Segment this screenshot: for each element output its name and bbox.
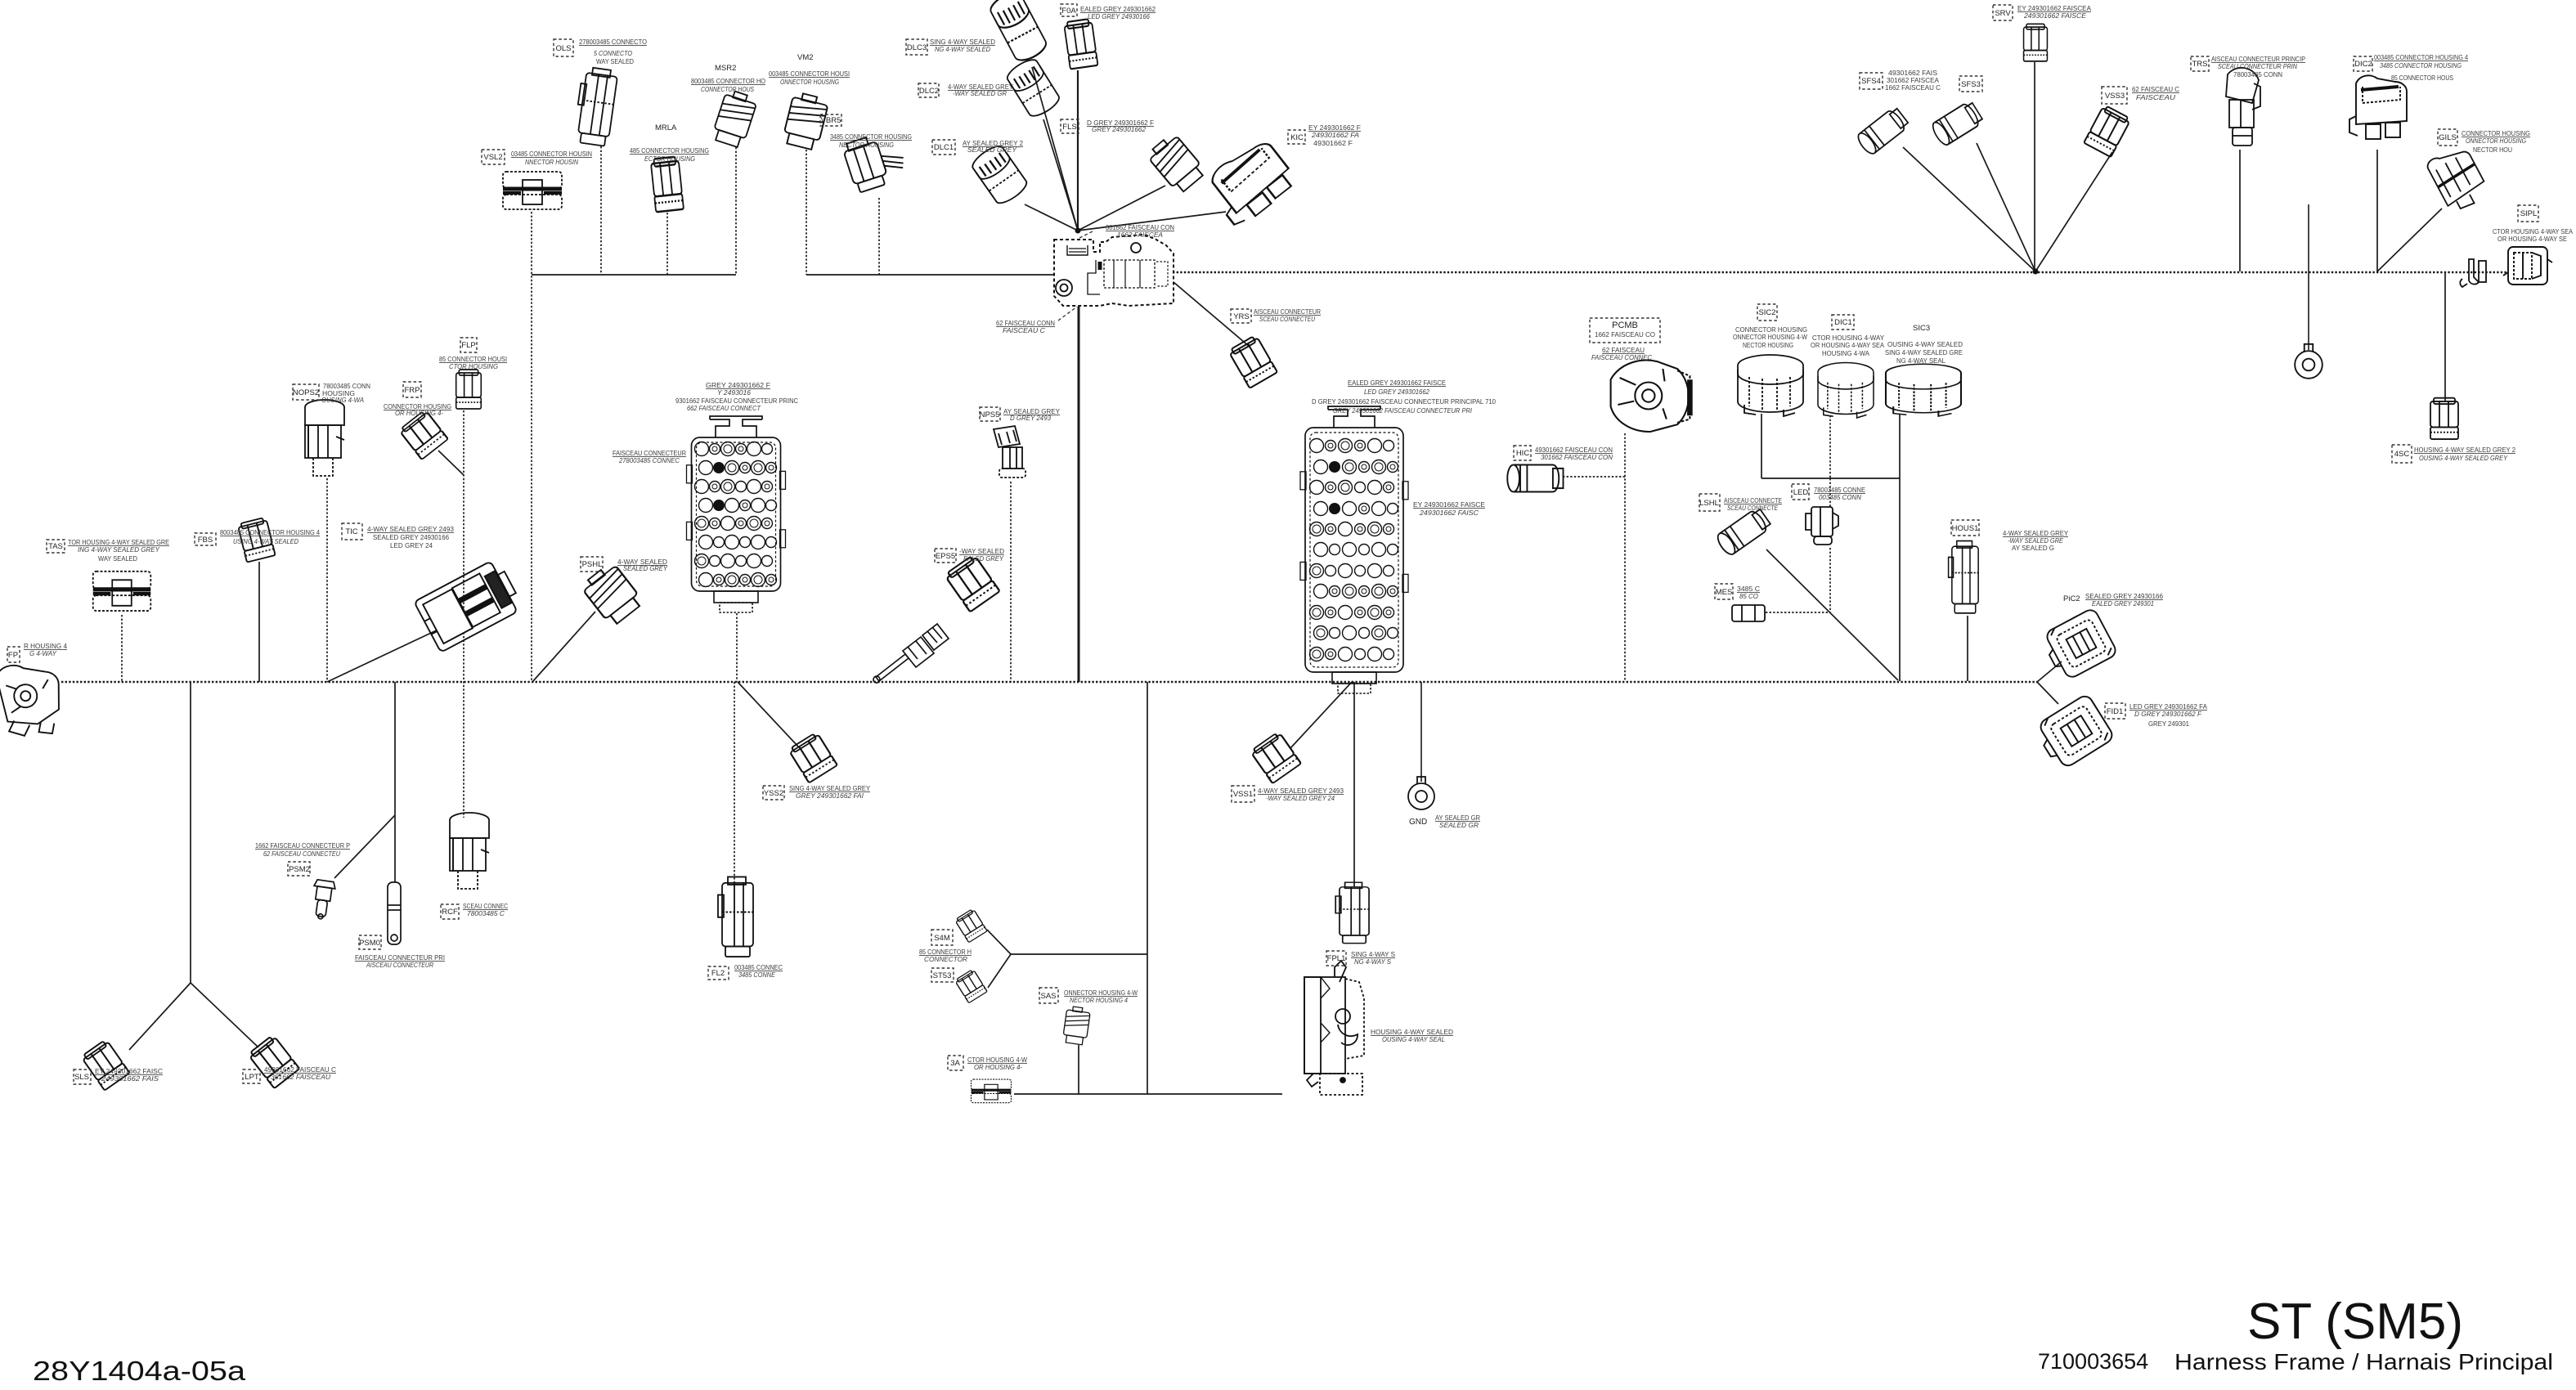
label GILS — [2438, 129, 2457, 146]
svg-text:ONNECTOR HOUSING: ONNECTOR HOUSING — [2466, 137, 2526, 145]
wire NOPS2 drop — [326, 478, 328, 682]
wire FBS drop — [258, 562, 260, 682]
svg-text:SIPL: SIPL — [2520, 209, 2538, 218]
svg-text:PCMB: PCMB — [1612, 321, 1638, 330]
svg-text:SFS4: SFS4 — [1861, 77, 1881, 86]
svg-text:1662 FAISCEAU C: 1662 FAISCEAU C — [1885, 83, 1941, 92]
svg-text:OUSING 4-WAY SEALED GREY: OUSING 4-WAY SEALED GREY — [2419, 454, 2508, 462]
connector LPT — [248, 1034, 299, 1088]
connector F0A — [1064, 19, 1098, 69]
connector VSL2 — [503, 172, 562, 209]
connector YRS — [1228, 334, 1277, 388]
label SIC2 — [1757, 304, 1777, 321]
svg-text:PSM0: PSM0 — [359, 939, 380, 948]
wire YSS2 diagonal — [738, 682, 798, 747]
svg-text:003485 CONN: 003485 CONN — [1819, 493, 1862, 501]
svg-text:662 FAISCEAU CONNECT: 662 FAISCEAU CONNECT — [687, 404, 761, 412]
svg-text:5 CONNECTO: 5 CONNECTO — [594, 49, 632, 57]
svg-text:SIC2: SIC2 — [1758, 308, 1775, 317]
label SAS — [1039, 988, 1058, 1003]
wire fan to DLC3 — [1032, 67, 1078, 231]
connector YSS2 — [788, 732, 837, 782]
svg-text:278003485 CONNECTO: 278003485 CONNECTO — [579, 38, 647, 46]
svg-text:G 4-WAY: G 4-WAY — [29, 649, 57, 657]
svg-text:4-WAY SEALED GREY 2493: 4-WAY SEALED GREY 2493 — [367, 525, 454, 533]
wire TAS drop — [121, 615, 123, 682]
svg-text:GND: GND — [1409, 818, 1427, 827]
label DLC2 — [918, 83, 939, 97]
svg-text:FPL1: FPL1 — [1327, 954, 1346, 963]
wire fan to DLC1 — [1025, 204, 1078, 231]
svg-text:249301662 FAISCE: 249301662 FAISCE — [2023, 11, 2086, 20]
svg-text:RCF: RCF — [442, 908, 458, 917]
svg-text:ECTOR HOUSING: ECTOR HOUSING — [644, 155, 695, 163]
connector FBS — [237, 517, 275, 562]
connector MSR2 — [711, 89, 758, 149]
svg-text:ONNECTOR HOUSING 4-W: ONNECTOR HOUSING 4-W — [1733, 333, 1807, 341]
wire PCMB drop — [1624, 433, 1626, 681]
wire MES horizontal — [1766, 612, 1830, 613]
svg-text:8003485 CONNECTOR HOUSING 4: 8003485 CONNECTOR HOUSING 4 — [220, 528, 320, 536]
connector fuel pump module — [1304, 961, 1364, 1095]
svg-text:1662 FAISCEAU CONNECTEUR P: 1662 FAISCEAU CONNECTEUR P — [255, 841, 350, 850]
svg-text:28Y1404a-05a: 28Y1404a-05a — [33, 1356, 246, 1386]
svg-text:NOPS2: NOPS2 — [293, 388, 319, 397]
svg-text:DLC1: DLC1 — [934, 143, 954, 152]
connector FLS — [1146, 132, 1207, 195]
svg-text:NECTOR HOUSING: NECTOR HOUSING — [839, 141, 894, 149]
svg-text:LPT: LPT — [245, 1073, 259, 1082]
svg-text:78003485 C: 78003485 C — [467, 909, 505, 917]
svg-text:WAY SEALED: WAY SEALED — [98, 554, 137, 563]
connector SIC2 — [1738, 355, 1803, 416]
wire SIC bus horizontal — [1761, 478, 1900, 479]
svg-text:249301662 FA: 249301662 FA — [1311, 131, 1359, 139]
label LED — [1792, 484, 1809, 500]
svg-text:49301662 F: 49301662 F — [1313, 139, 1353, 147]
svg-text:WAY SEALED: WAY SEALED — [596, 57, 634, 65]
wire center lower vertical — [1147, 682, 1148, 1094]
connector 4SC — [2430, 398, 2458, 439]
label FBS — [195, 533, 216, 545]
wire fan to KIC — [1078, 212, 1226, 231]
connector GILS — [2426, 143, 2491, 215]
wire S4M branch horizontal — [1011, 953, 1147, 955]
connector SRV — [2024, 24, 2048, 61]
wire FL2 vertical — [734, 682, 735, 882]
svg-text:FAISCEAU: FAISCEAU — [2136, 93, 2176, 101]
connector DLC1 — [969, 142, 1030, 207]
wire DIC1 ring drop — [2308, 204, 2309, 350]
wire PSM2 diagonal — [334, 815, 395, 878]
svg-text:301662 FAISCEAU CON: 301662 FAISCEAU CON — [1541, 453, 1613, 461]
connector VBR5 — [841, 128, 909, 194]
wire right branch line — [1173, 271, 2508, 273]
wire hub bottom drop — [1078, 307, 1080, 682]
svg-text:EY 249301662 FAISCE: EY 249301662 FAISCE — [1413, 500, 1485, 509]
connector FP — [0, 659, 65, 740]
svg-text:85 CO: 85 CO — [1739, 592, 1758, 600]
connector MES — [1732, 605, 1765, 621]
wire fork to ST53 — [988, 954, 1011, 988]
label ST53 — [931, 968, 954, 982]
label HOUS1 — [1951, 520, 1979, 536]
connector HIC — [1507, 465, 1563, 492]
connector SIPL — [2503, 247, 2552, 285]
wire OLS drop — [600, 146, 602, 275]
svg-text:710003654: 710003654 — [2038, 1349, 2148, 1374]
svg-text:NG 4-WAY SEAL: NG 4-WAY SEAL — [1896, 356, 1945, 365]
svg-text:LED GREY 24930166: LED GREY 24930166 — [1088, 12, 1150, 20]
svg-text:SING 4-WAY SEALED GRE: SING 4-WAY SEALED GRE — [1885, 348, 1963, 356]
svg-text:EALED GREY: EALED GREY — [963, 554, 1004, 563]
svg-text:EPS5: EPS5 — [936, 552, 955, 561]
wire fork to SLS — [129, 983, 191, 1050]
label PSHL — [581, 557, 603, 572]
wire LSHL diagonal — [1766, 549, 1898, 680]
label FRP — [403, 382, 421, 397]
connector LED — [1806, 507, 1838, 545]
connector PCMB — [1611, 361, 1690, 432]
svg-text:OR HOUSING 4-WAY SEA: OR HOUSING 4-WAY SEA — [1811, 341, 1884, 349]
svg-text:DLC3: DLC3 — [907, 43, 927, 52]
connector VSS3 — [2084, 105, 2131, 157]
label FPL1 — [1326, 951, 1346, 966]
svg-text:AISCEAU CONNECTEUR: AISCEAU CONNECTEUR — [366, 961, 433, 969]
svg-text:PSM2: PSM2 — [289, 865, 310, 874]
svg-text:CONNECTOR: CONNECTOR — [924, 955, 967, 963]
svg-text:CTOR HOUSING: CTOR HOUSING — [449, 362, 498, 370]
svg-text:VBR5: VBR5 — [821, 116, 841, 125]
label FL2 — [708, 966, 729, 980]
svg-text:FLP: FLP — [461, 341, 475, 350]
label F0A — [1061, 4, 1077, 16]
label 3A — [948, 1056, 963, 1070]
connector LSHL — [1715, 507, 1772, 558]
label LSHL — [1699, 494, 1720, 511]
wire NPS5 drop — [1010, 482, 1012, 682]
svg-text:SRV: SRV — [1995, 9, 2011, 18]
label OLS — [554, 39, 573, 56]
connector MRLA — [650, 156, 684, 212]
label KIC — [1288, 130, 1305, 144]
connector PSM0 — [388, 882, 401, 944]
wire SIC bus to trunk — [1899, 478, 1901, 681]
svg-text:NPS5: NPS5 — [980, 410, 1000, 419]
label SFS4 — [1860, 73, 1883, 89]
svg-text:TIC: TIC — [345, 527, 357, 536]
svg-text:TRS: TRS — [2192, 60, 2208, 69]
label YRS — [1231, 309, 1251, 323]
svg-text:MES: MES — [1716, 588, 1733, 597]
svg-text:VSS3: VSS3 — [2105, 92, 2125, 101]
wire GILS diagonal — [2377, 208, 2442, 271]
wire SIC2 drop — [1761, 414, 1762, 478]
connector KIC — [1201, 134, 1299, 229]
svg-text:D GREY 2493: D GREY 2493 — [1010, 414, 1051, 422]
wire FPL1 vertical — [1353, 682, 1355, 887]
label FP — [7, 647, 20, 662]
connector PC2 — [2040, 608, 2118, 683]
wire PSM0 vertical — [394, 682, 396, 882]
svg-text:GREY 249301: GREY 249301 — [2148, 720, 2189, 728]
svg-text:PSHL: PSHL — [582, 560, 603, 569]
svg-text:278003485 CONNEC: 278003485 CONNEC — [618, 456, 680, 464]
svg-text:SEALED GR: SEALED GR — [1439, 821, 1479, 829]
wire lower horizontal to module — [1014, 1093, 1282, 1095]
svg-text:PiC2: PiC2 — [2063, 594, 2080, 603]
connector HOUS1 — [1949, 541, 1979, 613]
label PSM0 — [359, 935, 381, 949]
svg-text:-WAY SEALED GR: -WAY SEALED GR — [953, 89, 1007, 97]
connector FL2 — [718, 877, 753, 957]
connector S4M — [954, 908, 987, 943]
wire FLP-RCF vertical — [463, 410, 464, 818]
wire SAS drop — [1078, 1045, 1079, 1094]
svg-text:85 CONNECTOR HOUS: 85 CONNECTOR HOUS — [2391, 74, 2453, 82]
svg-text:CONNECTOR HOUS: CONNECTOR HOUS — [701, 85, 754, 93]
svg-text:HIC: HIC — [1516, 449, 1530, 458]
label RCF — [441, 904, 459, 919]
connector TAS — [93, 572, 151, 611]
svg-text:3485 CONNECTOR HOUSING: 3485 CONNECTOR HOUSING — [2380, 61, 2462, 69]
label PCMB — [1590, 318, 1660, 343]
wire TRS drop — [2239, 150, 2241, 271]
svg-text:ST (SM5): ST (SM5) — [2247, 1294, 2463, 1350]
clamp fastener on line — [2460, 259, 2486, 287]
label YSS2 — [763, 786, 784, 800]
wire PSHL diagonal — [532, 612, 595, 682]
connector DIC1 — [1818, 363, 1874, 419]
connector OLS — [572, 66, 618, 146]
svg-text:OLS: OLS — [555, 44, 571, 53]
svg-text:SFS3: SFS3 — [1961, 80, 1981, 89]
svg-text:HOUSING 4-WAY SEALED GREY 2: HOUSING 4-WAY SEALED GREY 2 — [2414, 446, 2515, 454]
svg-text:LED: LED — [1793, 488, 1809, 497]
connector FRP — [399, 410, 448, 460]
connector DLC3 — [987, 0, 1049, 65]
svg-text:-WAY SEALED GREY 24: -WAY SEALED GREY 24 — [1266, 794, 1335, 802]
connector GND ring terminal — [1408, 777, 1434, 809]
svg-text:D GREY 249301662 F: D GREY 249301662 F — [2134, 710, 2202, 718]
label TIC — [342, 523, 362, 540]
svg-text:ONNECTOR HOUSING: ONNECTOR HOUSING — [780, 78, 839, 86]
label S4M — [931, 930, 953, 945]
svg-text:NECTOR HOU: NECTOR HOU — [2473, 146, 2512, 154]
svg-text:AY SEALED G: AY SEALED G — [2012, 544, 2054, 552]
svg-text:YRS: YRS — [1233, 312, 1250, 321]
wire SLS-LPT branch vertical — [190, 682, 191, 983]
connector SFS3 — [1930, 100, 1984, 147]
label VBR5 — [820, 114, 841, 126]
svg-text:TAS: TAS — [48, 542, 63, 551]
svg-text:78003485 CONN: 78003485 CONN — [2233, 70, 2282, 78]
wire fan to FLS — [1078, 186, 1165, 231]
label FLS — [1061, 119, 1079, 133]
svg-text:HOUSING 4-WA: HOUSING 4-WA — [1822, 349, 1869, 357]
label NPS5 — [980, 407, 1000, 421]
svg-text:62 FAISCEAU C: 62 FAISCEAU C — [2132, 85, 2179, 93]
svg-text:LED GREY 249301662: LED GREY 249301662 — [1364, 388, 1429, 396]
svg-text:EALED GREY 249301662 FAISCE: EALED GREY 249301662 FAISCE — [1348, 379, 1446, 387]
connector ECU1 48-pin — [687, 416, 786, 591]
wire MRLA drop — [666, 213, 668, 275]
svg-text:SAS: SAS — [1040, 992, 1056, 1001]
svg-text:GREY 249301662 FAI: GREY 249301662 FAI — [796, 791, 864, 800]
svg-text:8003485 CONNECTOR HO: 8003485 CONNECTOR HO — [691, 77, 765, 85]
svg-text:003485 CONNECTOR HOUSI: 003485 CONNECTOR HOUSI — [769, 69, 850, 78]
label FID1 — [2105, 703, 2125, 719]
svg-text:NECTOR HOUSING: NECTOR HOUSING — [1743, 341, 1793, 349]
svg-text:OUSING 4-WAY SEAL: OUSING 4-WAY SEAL — [1382, 1035, 1445, 1043]
connector EPS5 mate — [945, 554, 1000, 612]
connector FLP — [456, 370, 482, 409]
wire hub to YRS diagonal — [1174, 282, 1250, 347]
svg-text:OR HOUSING 4-WAY SE: OR HOUSING 4-WAY SE — [2497, 235, 2567, 243]
wire split to PC2 — [2037, 661, 2062, 682]
connector TRS — [2226, 68, 2260, 146]
svg-text:OUSING 4-WAY SEALED: OUSING 4-WAY SEALED — [1887, 340, 1963, 348]
wire main trunk — [61, 681, 2037, 683]
svg-text:MRLA: MRLA — [655, 123, 677, 132]
label LPT — [243, 1069, 260, 1083]
svg-text:OR HOUSING 4-: OR HOUSING 4- — [974, 1063, 1022, 1071]
svg-text:SEALED GREY: SEALED GREY — [967, 146, 1017, 154]
svg-text:F0A: F0A — [1061, 7, 1076, 16]
connector PSM2 — [310, 879, 336, 920]
svg-text:485 CONNECTOR HOUSING: 485 CONNECTOR HOUSING — [630, 146, 709, 155]
wire SRV vertical — [2034, 62, 2035, 271]
svg-text:62 FAISCEAU CONNECTEU: 62 FAISCEAU CONNECTEU — [263, 850, 341, 858]
svg-text:249301662 FAISC: 249301662 FAISC — [1419, 509, 1479, 517]
connector NOPS2 — [305, 400, 344, 476]
connector ring terminal right — [2295, 344, 2322, 379]
connector SFS4 — [1856, 106, 1910, 157]
label NOPS2 — [293, 384, 319, 400]
label VSL2 — [482, 150, 505, 164]
wire SFS4 diagonal — [1903, 147, 2035, 271]
svg-text:LED GREY 24: LED GREY 24 — [390, 541, 433, 549]
wire MSR2 drop — [735, 147, 737, 275]
connector VSS1 — [1250, 732, 1301, 784]
wire VM2 drop — [806, 150, 807, 275]
connector VM2 — [782, 92, 829, 151]
wire VSL2 drop to trunk — [531, 212, 532, 682]
connector FPL1 — [1335, 882, 1369, 943]
label TAS — [47, 540, 65, 553]
svg-text:HOUS1: HOUS1 — [1952, 524, 1979, 533]
label MES — [1715, 584, 1733, 599]
svg-text:NECTOR HOUSING 4: NECTOR HOUSING 4 — [1070, 996, 1128, 1004]
svg-text:1662 FAISCEAU CO: 1662 FAISCEAU CO — [1595, 330, 1655, 339]
svg-text:NNECTOR HOUSIN: NNECTOR HOUSIN — [525, 158, 579, 166]
label SIPL — [2518, 205, 2538, 222]
connector SLS — [81, 1039, 130, 1091]
connector EPS5 probe — [873, 624, 949, 683]
wire fork to LPT — [191, 983, 258, 1047]
svg-text:D GREY 249301662 FAISCEAU CONN: D GREY 249301662 FAISCEAU CONNECTEUR PRI… — [1312, 397, 1496, 406]
wire VSS3 diagonal — [2035, 152, 2112, 271]
svg-text:DIC2: DIC2 — [2354, 60, 2372, 69]
svg-text:VM2: VM2 — [797, 53, 814, 62]
svg-text:3485 CONNECTOR HOUSING: 3485 CONNECTOR HOUSING — [830, 132, 912, 141]
svg-text:MSR2: MSR2 — [715, 64, 736, 73]
label FLP — [460, 338, 477, 352]
label 4SC — [2392, 445, 2412, 463]
wire fork to S4M — [987, 930, 1011, 954]
connector RCF — [450, 813, 489, 889]
svg-text:OR HOUSING 4-: OR HOUSING 4- — [395, 409, 443, 417]
svg-text:FL2: FL2 — [711, 969, 725, 978]
connector SIC3 — [1886, 364, 1961, 416]
wire SIC3 drop — [1899, 414, 1901, 478]
svg-text:SEALED GREY 24930166: SEALED GREY 24930166 — [373, 533, 449, 541]
svg-text:Harness Frame / Harnais Princi: Harness Frame / Harnais Principal — [2174, 1349, 2553, 1374]
wire fan to DLC2 — [1043, 119, 1078, 231]
connector ECU2 48-pin — [1300, 406, 1408, 672]
label EPS5 — [935, 549, 956, 563]
wire horizontal B y336 — [806, 274, 1054, 276]
svg-text:FP: FP — [8, 651, 18, 660]
wire GND stem — [1420, 682, 1422, 782]
svg-text:FRP: FRP — [405, 386, 420, 395]
svg-text:S4M: S4M — [934, 934, 950, 943]
svg-text:DIC1: DIC1 — [1834, 318, 1852, 327]
label VSS3 — [2102, 87, 2127, 104]
svg-text:NG 4-WAY S: NG 4-WAY S — [1354, 957, 1391, 966]
wire ECU1 drop — [736, 613, 738, 682]
svg-text:SCEAU CONNECTEUR PRIN: SCEAU CONNECTEUR PRIN — [2218, 62, 2298, 70]
wire F0A vertical — [1077, 70, 1079, 231]
svg-text:SCEAU CONNECTEU: SCEAU CONNECTEU — [1259, 315, 1316, 323]
svg-text:GREY 249301662: GREY 249301662 — [1092, 125, 1146, 133]
connector ST53 — [954, 969, 987, 1003]
svg-text:LSHL: LSHL — [1699, 499, 1719, 508]
svg-text:249301662 FAIS: 249301662 FAIS — [101, 1074, 159, 1083]
svg-text:USING 4-WAY SEALED: USING 4-WAY SEALED — [233, 537, 298, 545]
wire FRP diagonal — [438, 451, 464, 475]
svg-text:YSS2: YSS2 — [764, 789, 783, 798]
svg-text:GILS: GILS — [2439, 133, 2457, 142]
svg-text:4SC: 4SC — [2394, 450, 2410, 459]
svg-text:EALED GREY 249301: EALED GREY 249301 — [2092, 599, 2154, 608]
svg-text:NG 4-WAY SEALED: NG 4-WAY SEALED — [935, 45, 990, 53]
svg-text:3485 CONNE: 3485 CONNE — [738, 971, 775, 979]
svg-text:003485 CONNECTOR HOUSING 4: 003485 CONNECTOR HOUSING 4 — [2374, 53, 2468, 61]
connector PSHL — [580, 561, 644, 627]
svg-text:GREY 249301662 FAISCEAU CONNEC: GREY 249301662 FAISCEAU CONNECTEUR PRI — [1333, 406, 1473, 415]
wire LED lower — [1829, 548, 1831, 612]
wire split to FID1 — [2037, 682, 2058, 704]
connector 3A — [972, 1079, 1012, 1103]
wire VSS1 diagonal — [1290, 682, 1352, 748]
connector SAS — [1062, 1006, 1091, 1045]
label VSS1 — [1232, 786, 1254, 802]
connector DLC2 — [1004, 56, 1062, 119]
svg-text:Y 2493016: Y 2493016 — [717, 388, 751, 397]
svg-text:VSS1: VSS1 — [1233, 790, 1253, 799]
svg-text:SIC3: SIC3 — [1913, 324, 1930, 333]
connector DIC2 — [2349, 75, 2407, 139]
label DIC2 — [2354, 56, 2372, 71]
wire TIC diagonal — [327, 628, 442, 682]
svg-text:FLS: FLS — [1062, 123, 1076, 132]
svg-text:VSL2: VSL2 — [483, 153, 502, 162]
svg-text:FAISCEAU C: FAISCEAU C — [1003, 326, 1046, 334]
label DLC1 — [932, 140, 955, 155]
label TRS — [2191, 56, 2209, 71]
wire HOUS1 drop — [1967, 616, 1968, 681]
